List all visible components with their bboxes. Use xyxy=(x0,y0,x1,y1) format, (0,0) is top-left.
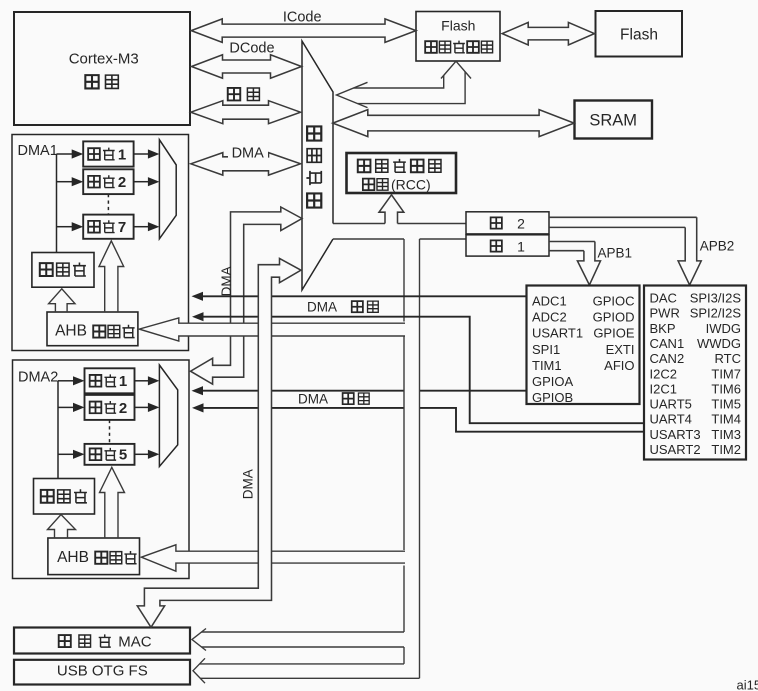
svg-text:GPIOC: GPIOC xyxy=(593,294,635,309)
svg-text:Flash: Flash xyxy=(441,18,475,34)
wire DMA request line 2 (into DMA1, to APB2) xyxy=(203,317,644,424)
svg-text:ADC1: ADC1 xyxy=(532,294,567,309)
svg-text:DMA: DMA xyxy=(219,266,234,296)
box Flash xyxy=(596,11,683,57)
channel bus-matrix to Flash interface controller xyxy=(337,82,368,107)
svg-text:DMA1: DMA1 xyxy=(18,143,58,159)
label 从设备 xyxy=(95,552,107,564)
dashed link channel2..channel5 xyxy=(109,420,111,444)
svg-text:2: 2 xyxy=(118,174,126,191)
box bridge1 桥1 xyxy=(466,235,549,256)
DMA1 mux trapezoid xyxy=(159,140,176,239)
label 从设备 xyxy=(93,325,105,337)
label 总线矩阵 rotated xyxy=(307,126,321,140)
svg-text:AHB: AHB xyxy=(57,549,89,566)
label 系统 xyxy=(228,88,241,101)
wire arbiter to channel y=407.4 xyxy=(58,406,74,408)
wire channel to USB OTG FS xyxy=(200,664,420,678)
svg-text:EXTI: EXTI xyxy=(606,342,635,357)
label 通道7 xyxy=(88,221,100,233)
svg-text:DMA: DMA xyxy=(240,469,255,499)
svg-text:CAN2: CAN2 xyxy=(650,351,685,366)
box DMA2 xyxy=(13,360,190,579)
DMA1 arbiter feed wire xyxy=(56,154,58,253)
label 仲裁器 DMA2 xyxy=(41,490,54,503)
DMA2 mux trapezoid xyxy=(159,365,177,467)
arrow APB1 xyxy=(577,242,600,286)
label 通道1 xyxy=(90,375,102,387)
box DMA2 arbiter 仲裁器 xyxy=(34,479,95,515)
vertical AHB channel (bus to AHB slaves / MAC / USB) xyxy=(404,239,420,678)
svg-text:SPI2/I2S: SPI2/I2S xyxy=(690,306,742,321)
svg-text:GPIOA: GPIOA xyxy=(532,374,574,389)
svg-text:I2C1: I2C1 xyxy=(650,381,677,396)
channel into DMA1 AHB slave xyxy=(139,318,405,341)
svg-text:APB1: APB1 xyxy=(598,246,633,261)
label 核心 xyxy=(85,75,98,88)
svg-text:7: 7 xyxy=(118,219,126,236)
bus System 系统 xyxy=(191,101,301,124)
wire bus-matrix to bridges (AHB system bus) top line xyxy=(333,223,466,225)
svg-text:TIM7: TIM7 xyxy=(711,366,741,381)
svg-text:1: 1 xyxy=(119,373,127,390)
svg-text:WWDG: WWDG xyxy=(697,336,741,351)
wire arbiter to channel y=454.3 xyxy=(58,453,74,455)
arrow APB2 xyxy=(678,217,701,285)
svg-text:5: 5 xyxy=(119,447,127,464)
svg-text:DMA2: DMA2 xyxy=(18,370,58,386)
svg-text:UART4: UART4 xyxy=(650,412,692,427)
svg-text:1: 1 xyxy=(517,238,525,254)
wire channel to mux y=226.7 xyxy=(134,226,149,228)
svg-text:DCode: DCode xyxy=(229,41,274,57)
svg-text:CAN1: CAN1 xyxy=(650,336,685,351)
box DMA1 AHB slave AHB从设备 xyxy=(47,312,138,346)
svg-text:SPI3/I2S: SPI3/I2S xyxy=(690,291,742,306)
wire channel to mux y=380.8 xyxy=(135,380,149,382)
label 以太网 xyxy=(59,635,71,647)
label 接口控制器 xyxy=(425,41,437,53)
svg-text:I2C2: I2C2 xyxy=(650,366,677,381)
label 仲裁器 DMA1 xyxy=(40,263,53,276)
box RCC xyxy=(347,153,457,193)
wire bridge2 to APB2 arrow xyxy=(549,217,697,227)
svg-text:UART5: UART5 xyxy=(650,397,692,412)
label 请求2 xyxy=(343,393,354,404)
svg-text:(RCC): (RCC) xyxy=(391,176,431,192)
wire channel to mux y=154 xyxy=(134,153,149,155)
wire channel to mux y=454.3 xyxy=(135,453,149,455)
svg-text:MAC: MAC xyxy=(118,633,152,650)
wire channel to Ethernet MAC right side xyxy=(202,632,405,647)
svg-text:TIM6: TIM6 xyxy=(711,381,741,396)
bus DMA (DMA1 master) xyxy=(191,153,301,176)
svg-text:BKP: BKP xyxy=(650,321,676,336)
svg-text:ai15: ai15 xyxy=(737,678,758,691)
label 桥 1 xyxy=(491,240,502,251)
label 通道2 xyxy=(90,402,102,414)
svg-text:2: 2 xyxy=(517,215,525,231)
bus Sram xyxy=(333,110,574,137)
DMA2 arbiter feed wire xyxy=(57,381,59,479)
wire DMA request line 1 (into DMA1, to APB1) xyxy=(203,295,527,297)
box DMA1 channel2 通道2 xyxy=(83,169,133,194)
svg-text:DMA: DMA xyxy=(298,391,328,406)
svg-text:SPI1: SPI1 xyxy=(532,342,560,357)
label 通道5 xyxy=(90,448,102,460)
arrow AHB slave to channel7 xyxy=(99,241,124,312)
bus ICode xyxy=(191,19,416,43)
label 通道1 xyxy=(88,148,100,160)
dashed link channel2..channel7 xyxy=(107,194,109,215)
svg-text:USART3: USART3 xyxy=(650,427,701,442)
svg-text:TIM5: TIM5 xyxy=(711,397,741,412)
label 复位和时钟 xyxy=(358,160,371,173)
wire bus-matrix to bridges bottom line xyxy=(333,238,466,240)
bus matrix shape xyxy=(302,41,333,290)
box DMA1 channel1 通道1 xyxy=(83,141,133,166)
box DMA1 xyxy=(12,135,189,351)
svg-text:GPIOD: GPIOD xyxy=(593,310,635,325)
svg-text:Flash: Flash xyxy=(620,27,658,44)
box DMA2 channel2 通道2 xyxy=(85,395,135,420)
svg-text:ADC2: ADC2 xyxy=(532,310,567,325)
box SRAM xyxy=(575,101,653,139)
label vertical DMA 2 xyxy=(240,469,255,499)
box Cortex-M3 xyxy=(14,12,190,125)
svg-text:Cortex-M3: Cortex-M3 xyxy=(69,51,139,68)
wire arbiter to channel y=181.7 xyxy=(57,181,73,183)
svg-text:AFIO: AFIO xyxy=(604,358,634,373)
svg-text:GPIOE: GPIOE xyxy=(593,326,635,341)
box DMA1 arbiter 仲裁器 xyxy=(32,253,94,288)
wire bridge1 to APB1 arrow xyxy=(549,242,595,251)
label 桥 2 xyxy=(491,217,502,228)
arrow into RCC xyxy=(379,195,404,224)
open arrowhead into USB xyxy=(193,658,205,683)
box DMA1 channel7 通道7 xyxy=(83,215,133,239)
label vertical DMA 1 xyxy=(219,266,234,296)
wire arbiter to channel y=226.7 xyxy=(57,226,73,228)
label 通道2 xyxy=(88,176,100,188)
box DMA2 channel5 通道5 xyxy=(85,444,135,465)
channel into DMA2 AHB slave xyxy=(141,545,405,571)
svg-text:IWDG: IWDG xyxy=(706,321,741,336)
box Ethernet MAC 以太网MAC xyxy=(14,628,190,654)
svg-text:PWR: PWR xyxy=(650,306,680,321)
box APB2 peripherals xyxy=(644,286,746,460)
wire DMA request line 3 (into DMA2) xyxy=(203,390,527,392)
svg-text:RTC: RTC xyxy=(715,351,741,366)
svg-text:USB OTG FS: USB OTG FS xyxy=(57,663,148,680)
svg-text:USART1: USART1 xyxy=(532,326,583,341)
svg-text:ICode: ICode xyxy=(283,10,322,26)
box DMA2 AHB slave AHB从设备 xyxy=(48,538,140,575)
label DMA on arrow xyxy=(228,144,268,159)
box APB1 peripherals xyxy=(527,286,640,405)
arrow AHB slave to arbiter (DMA2) xyxy=(48,515,76,539)
svg-text:TIM2: TIM2 xyxy=(711,442,741,457)
svg-text:DMA: DMA xyxy=(307,299,337,314)
bus FlashCtl-Flash xyxy=(502,22,594,45)
svg-text:GPIOB: GPIOB xyxy=(532,390,573,405)
label 控制 xyxy=(363,179,375,191)
box Flash interface controller xyxy=(416,12,500,62)
box DMA2 channel1 通道1 xyxy=(85,368,135,393)
svg-text:1: 1 xyxy=(118,146,126,163)
channel DMA2-master to bus matrix (double hollow path) xyxy=(191,207,303,384)
svg-text:DMA: DMA xyxy=(232,146,265,162)
box USB OTG FS xyxy=(14,660,190,685)
svg-text:TIM1: TIM1 xyxy=(532,358,562,373)
wire channel to mux y=181.7 xyxy=(134,181,149,183)
channel Ethernet-MAC-master to bus matrix xyxy=(137,258,301,627)
svg-text:AHB: AHB xyxy=(55,323,87,340)
box bridge2 桥2 xyxy=(466,212,549,234)
svg-text:SRAM: SRAM xyxy=(589,112,637,130)
svg-text:2: 2 xyxy=(119,400,127,417)
open arrowhead into MAC xyxy=(192,629,206,651)
arrow AHB slave to arbiter xyxy=(49,289,75,312)
svg-text:TIM3: TIM3 xyxy=(711,427,741,442)
wire arbiter to channel y=380.8 xyxy=(58,380,74,382)
svg-text:USART2: USART2 xyxy=(650,442,701,457)
label 请求1 xyxy=(352,301,363,312)
arrow AHB slave to channel5 xyxy=(100,467,125,538)
svg-text:TIM4: TIM4 xyxy=(711,412,741,427)
bus DCode xyxy=(192,55,302,78)
svg-text:DAC: DAC xyxy=(650,291,677,306)
wire arbiter to channel y=154 xyxy=(57,153,73,155)
wire DMA request line 4 (into DMA2, to APB2) xyxy=(203,408,644,432)
wire channel to mux y=407.4 xyxy=(135,406,149,408)
svg-text:APB2: APB2 xyxy=(700,238,735,253)
